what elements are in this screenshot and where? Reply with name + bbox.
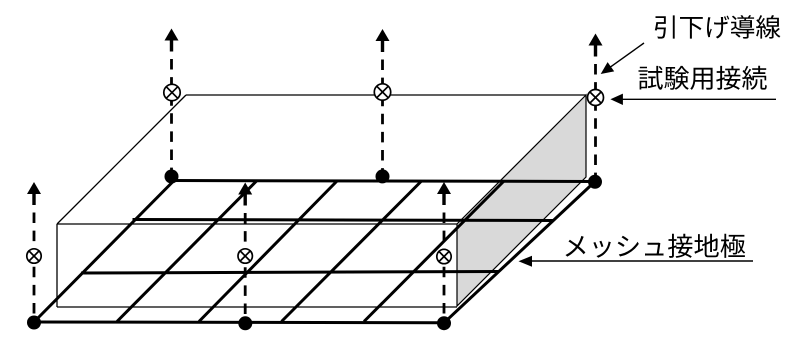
- test connection symbol front-middle: [238, 249, 252, 263]
- test connection symbol front-left: [27, 249, 41, 263]
- mesh electrode: inner diagonal wire 2: [199, 181, 337, 322]
- down conductor back-right arrow: [589, 34, 603, 46]
- mesh electrode: inner horizontal wire 1: [81, 272, 499, 274]
- mesh electrode: left edge: [34, 179, 176, 323]
- down conductor back-left arrow: [165, 29, 179, 41]
- soil box: top face left edge: [57, 95, 186, 224]
- down conductor front-right arrow: [437, 182, 451, 194]
- label: mesh earth electrode (mesh secchi-kyoku): [566, 234, 746, 258]
- mesh electrode: back edge: [171, 181, 595, 182]
- down conductor back-middle arrow: [376, 29, 390, 41]
- mesh electrode: inner diagonal wire 1: [117, 181, 257, 322]
- soil box: top face front edge: [57, 223, 457, 225]
- mesh junction dot front-middle: [238, 316, 252, 330]
- mesh electrode: inner diagonal wire 4: [364, 181, 504, 322]
- label arrow: mesh earth electrode: [532, 260, 753, 262]
- down conductor back-right (dashed): [594, 64, 597, 176]
- mesh junction dot front-left: [27, 316, 41, 330]
- mesh electrode: inner diagonal wire 3: [282, 181, 422, 322]
- test connection symbol back-middle: [374, 84, 390, 100]
- test connection symbol back-left: [164, 84, 180, 100]
- label: test connection (shiken-you setsuzoku): [639, 66, 767, 90]
- soil box: top face back edge: [186, 94, 586, 96]
- down conductor front-right (dashed): [443, 213, 446, 318]
- mesh electrode: right edge: [444, 182, 595, 323]
- down conductor front-middle (dashed): [244, 213, 247, 316]
- mesh junction dot back-middle: [376, 169, 390, 183]
- soil box: front-left vertical edge: [56, 224, 58, 307]
- label: down conductor (hikisage dousen): [655, 15, 781, 39]
- down conductor front-middle arrow: [238, 183, 252, 195]
- label arrow: test connection: [622, 98, 776, 100]
- mesh junction dot front-right: [437, 316, 451, 330]
- test connection symbol front-right: [437, 249, 451, 263]
- down conductor front-left arrow: [27, 182, 41, 194]
- down conductor back-middle (dashed): [381, 60, 384, 174]
- mesh electrode: front edge: [34, 321, 444, 325]
- soil box: bottom front edge: [57, 306, 457, 308]
- soil box: shaded right side face: [457, 95, 586, 306]
- mesh electrode: inner horizontal wire 2: [133, 220, 555, 221]
- label arrow: down conductor: [610, 43, 644, 67]
- down conductor front-left (dashed): [33, 213, 36, 318]
- mesh junction dot back-right: [588, 175, 602, 189]
- mesh junction dot back-left: [165, 170, 179, 184]
- test connection symbol back-right: [588, 90, 604, 106]
- down conductor back-left (dashed): [170, 59, 173, 171]
